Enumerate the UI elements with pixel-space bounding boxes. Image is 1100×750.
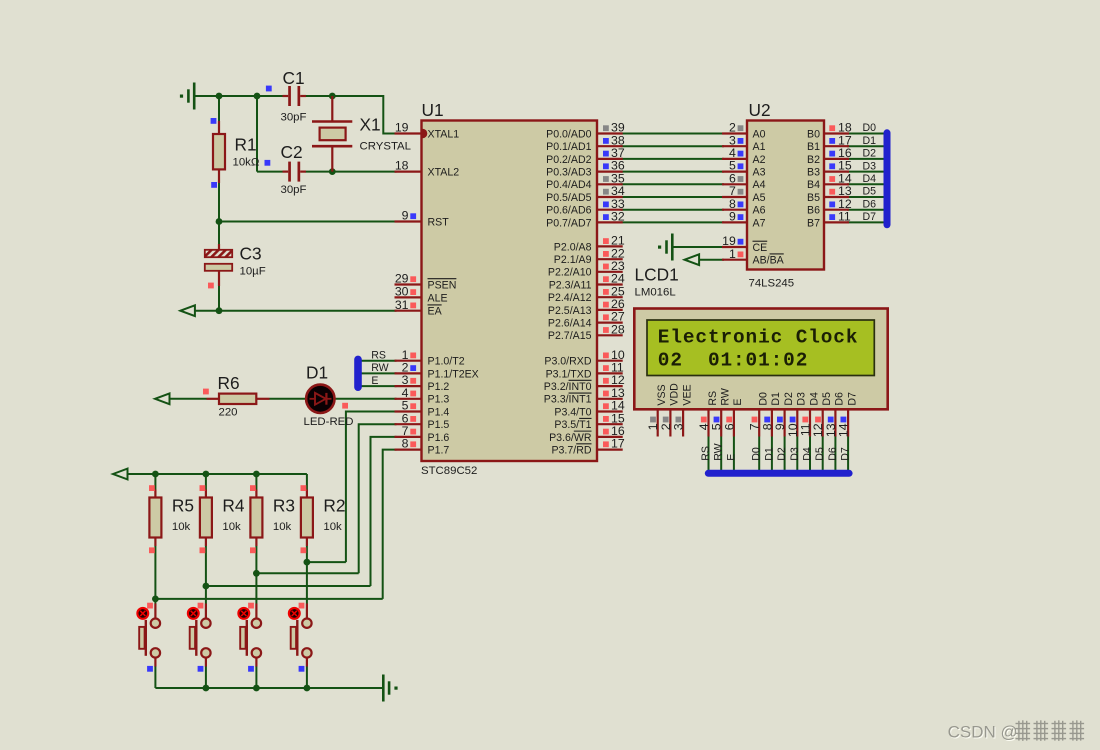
svg-text:D3: D3 [863, 160, 877, 172]
node rail/R3 junction [253, 471, 260, 478]
wire P0.4 U1 to U2 [621, 183, 724, 185]
svg-text:VSS: VSS [656, 384, 668, 405]
wire LCD E to bus [733, 437, 735, 472]
svg-text:D5: D5 [821, 392, 833, 406]
svg-text:U2: U2 [749, 100, 771, 120]
resistor R2 [301, 490, 313, 547]
svg-text:D7: D7 [846, 392, 858, 406]
svg-text:A5: A5 [753, 192, 766, 204]
svg-text:D5: D5 [863, 186, 877, 198]
pin state marker button 2 bottom [198, 666, 204, 672]
wire RST [219, 221, 397, 223]
svg-text:P0.0/AD0: P0.0/AD0 [546, 128, 591, 140]
IC U2 74LS245 body [747, 121, 824, 270]
wire B7 to D bus [847, 221, 885, 223]
wire P0.0 U1 to U2 [621, 133, 724, 135]
svg-text:30pF: 30pF [281, 184, 307, 196]
svg-text:10k: 10k [222, 521, 241, 533]
wire C2 left [257, 171, 283, 173]
svg-text:10k: 10k [172, 521, 191, 533]
svg-text:E: E [725, 454, 737, 461]
svg-text:18: 18 [395, 159, 409, 173]
node R2 tap [304, 559, 311, 566]
svg-text:P2.5/A13: P2.5/A13 [548, 305, 592, 317]
svg-text:R6: R6 [218, 373, 240, 393]
svg-text:P2.0/A8: P2.0/A8 [554, 241, 592, 253]
svg-text:D6: D6 [834, 392, 846, 406]
wire R6 to D1 [270, 398, 307, 400]
svg-text:10k: 10k [323, 521, 342, 533]
pin state marker C1 left [266, 86, 272, 92]
svg-text:P3.5/T1: P3.5/T1 [554, 419, 591, 431]
U2 right pin numbers [838, 121, 852, 224]
svg-text:P0.5/AD5: P0.5/AD5 [546, 192, 591, 204]
capacitor C2 [283, 162, 306, 182]
svg-text:30pF: 30pF [281, 112, 307, 124]
svg-text:D4: D4 [863, 173, 877, 185]
wire P0.6 U1 to U2 [621, 209, 724, 211]
pin state marker button 3 bottom [248, 666, 254, 672]
svg-text:8: 8 [402, 437, 409, 451]
node R3 tap [253, 570, 260, 577]
svg-text:D0: D0 [758, 392, 770, 406]
crystal X1 [312, 96, 352, 172]
LED D1 [306, 385, 334, 413]
pin state marker button 4 top [299, 603, 305, 609]
svg-text:P1.6: P1.6 [428, 432, 450, 444]
pin state marker button 1 bottom [147, 666, 153, 672]
push button 4 [291, 604, 312, 667]
button 2 actuator [188, 608, 199, 619]
ground terminal at resistor rail [113, 469, 128, 480]
wire B0 to D bus [847, 133, 885, 135]
svg-text:29: 29 [395, 272, 409, 286]
bus LCD data (bottom) [705, 470, 853, 477]
svg-text:P1.0/T2: P1.0/T2 [428, 356, 465, 368]
svg-text:D2: D2 [776, 447, 788, 461]
resistor R3 [250, 490, 262, 547]
U1 right pin numbers [611, 121, 625, 451]
svg-text:10k: 10k [273, 521, 292, 533]
svg-text:R5: R5 [172, 496, 194, 516]
wire key row to riser (column R3) [256, 572, 358, 574]
wire riser to U1 pin (column R3) [359, 424, 397, 573]
svg-text:D7: D7 [840, 447, 852, 461]
svg-text:A0: A0 [753, 128, 766, 140]
svg-text:P3.6/WR: P3.6/WR [549, 432, 592, 444]
wire LCD D4 to bus [809, 437, 811, 472]
node C2/X1 junction [329, 168, 336, 175]
svg-text:RS: RS [700, 446, 712, 461]
svg-text:C2: C2 [281, 142, 303, 162]
wire P0.7 U1 to U2 [621, 221, 724, 223]
wire LCD D5 to bus [822, 437, 824, 472]
wire button 2 bottom [255, 666, 257, 688]
ground terminal at R6 [155, 393, 170, 404]
wire LCD D1 to bus [771, 437, 773, 472]
wire R5 bottom to node [154, 546, 156, 599]
node VCC/C2 junction [254, 93, 261, 100]
wire ground to AB/BA [699, 259, 724, 261]
svg-text:X1: X1 [360, 115, 381, 135]
svg-text:32: 32 [611, 210, 625, 224]
wire P0.5 U1 to U2 [621, 196, 724, 198]
node bottom rail junction 2 [253, 685, 260, 692]
svg-text:D2: D2 [783, 392, 795, 406]
svg-text:A3: A3 [753, 167, 766, 179]
pin state marker R2 bottom [301, 547, 307, 553]
svg-text:LCD1: LCD1 [635, 265, 679, 285]
svg-text:RS: RS [707, 391, 719, 406]
svg-text:P0.7/AD7: P0.7/AD7 [546, 217, 591, 229]
svg-text:B0: B0 [807, 128, 820, 140]
U1 left pin stubs [395, 134, 422, 450]
wire X1 top to XTAL1 [332, 96, 396, 134]
svg-text:R4: R4 [222, 496, 244, 516]
wire LCD D0 to bus [758, 437, 760, 472]
svg-text:P3.0/RXD: P3.0/RXD [544, 356, 591, 368]
svg-text:ALE: ALE [428, 292, 448, 304]
svg-text:Electronic Clock: Electronic Clock [658, 327, 859, 349]
svg-text:74LS245: 74LS245 [749, 278, 795, 290]
svg-text:P1.1/T2EX: P1.1/T2EX [428, 368, 479, 380]
svg-text:28: 28 [611, 322, 625, 336]
pin state marker D1 right [342, 403, 348, 409]
svg-text:P3.1/TXD: P3.1/TXD [546, 368, 592, 380]
svg-text:D1: D1 [770, 392, 782, 406]
svg-text:P0.1/AD1: P0.1/AD1 [546, 141, 591, 153]
svg-text:P2.4/A12: P2.4/A12 [548, 292, 592, 304]
pin state marker C2 left [265, 160, 271, 166]
pin state marker button 4 bottom [299, 666, 305, 672]
push button 1 [139, 604, 160, 667]
resistor R5 [149, 490, 161, 547]
LCD screen [647, 320, 874, 376]
svg-text:A4: A4 [753, 179, 766, 191]
svg-text:VEE: VEE [681, 384, 693, 405]
svg-text:P3.2/INT0: P3.2/INT0 [544, 381, 592, 393]
U2 right pin state markers [829, 125, 835, 220]
svg-text:10µF: 10µF [240, 266, 266, 278]
svg-text:P2.7/A15: P2.7/A15 [548, 330, 592, 342]
LCD LCD1 LM016L body [634, 309, 887, 410]
svg-text:RST: RST [428, 216, 450, 228]
svg-text:A6: A6 [753, 205, 766, 217]
pin state marker button 3 top [248, 603, 254, 609]
wire button 3 bottom [205, 666, 207, 688]
wire P0.1 U1 to U2 [621, 145, 724, 147]
pin state marker R5 top [149, 485, 155, 491]
wire R5 top [154, 474, 156, 490]
svg-text:EA: EA [428, 306, 443, 318]
svg-text:D3: D3 [789, 447, 801, 461]
svg-text:D1: D1 [763, 447, 775, 461]
U2 left pin names [753, 128, 785, 266]
push button 3 [240, 604, 261, 667]
node rail/R5 junction [152, 471, 159, 478]
wire ground to R6 [170, 398, 207, 400]
capacitor C3 (electrolytic) [205, 244, 232, 286]
U2 right pin names [807, 128, 820, 229]
pin state marker R6 left [203, 389, 209, 395]
wire B5 to D bus [847, 196, 885, 198]
wire B4 to D bus [847, 183, 885, 185]
wire node to button 1 [306, 562, 308, 603]
wire E bus tap to P1.2 [361, 385, 397, 387]
svg-text:D7: D7 [863, 211, 877, 223]
svg-text:P2.1/A9: P2.1/A9 [554, 254, 592, 266]
wire LCD D6 to bus [834, 437, 836, 472]
wire R4 top [205, 474, 207, 490]
wire R1 bottom to RST [218, 183, 220, 222]
node R4 tap [203, 583, 210, 590]
svg-text:19: 19 [395, 121, 409, 135]
U1 XTAL1 clock mark [423, 129, 428, 139]
pin state marker R2 top [301, 485, 307, 491]
svg-text:P1.3: P1.3 [428, 394, 450, 406]
bus D0-D7 (right) [884, 129, 891, 228]
svg-text:P3.3/INT1: P3.3/INT1 [544, 394, 592, 406]
svg-text:PSEN: PSEN [428, 279, 457, 291]
svg-text:02 01:01:02: 02 01:01:02 [658, 349, 808, 371]
pin state marker C3 bottom [208, 283, 214, 289]
svg-text:D0: D0 [751, 447, 763, 461]
svg-text:P0.6/AD6: P0.6/AD6 [546, 205, 591, 217]
svg-text:B2: B2 [807, 154, 820, 166]
svg-text:D4: D4 [802, 447, 814, 461]
svg-text:D1: D1 [863, 135, 877, 147]
wire B2 to D bus [847, 158, 885, 160]
svg-text:P1.2: P1.2 [428, 381, 450, 393]
svg-text:D6: D6 [863, 198, 877, 210]
wire LCD D3 to bus [796, 437, 798, 472]
pin state marker R4 bottom [200, 547, 206, 553]
svg-text:D0: D0 [863, 122, 877, 134]
U2 left pin numbers [722, 121, 736, 261]
wire button ground rail (bottom) [155, 687, 383, 689]
svg-text:P3.4/T0: P3.4/T0 [554, 406, 591, 418]
svg-text:LM016L: LM016L [635, 287, 676, 299]
button 1 actuator [137, 608, 148, 619]
wire R3 top [255, 474, 257, 490]
svg-text:R3: R3 [273, 496, 295, 516]
wire RW bus tap to P1.1 [361, 372, 397, 374]
svg-text:14: 14 [837, 423, 851, 437]
wire R2 top [306, 474, 308, 490]
wire C3 to ground rail [218, 286, 220, 311]
wire C2 branch vertical [256, 95, 258, 172]
svg-text:9: 9 [729, 210, 736, 224]
svg-text:U1: U1 [422, 100, 444, 120]
U1 right pin names [544, 128, 592, 456]
power symbol bottom (button rail) [383, 675, 397, 702]
svg-text:D4: D4 [808, 392, 820, 406]
svg-text:P1.7: P1.7 [428, 445, 450, 457]
pin state marker R1 top [211, 118, 217, 124]
wire key row to riser (column R4) [206, 585, 371, 587]
svg-text:R1: R1 [235, 135, 257, 155]
wire button 4 bottom [154, 666, 156, 688]
wire key row to riser (column R2) [307, 561, 346, 563]
capacitor C1 [283, 86, 306, 106]
svg-text:P3.7/RD: P3.7/RD [551, 445, 591, 457]
svg-text:P2.6/A14: P2.6/A14 [548, 318, 592, 330]
pin state marker button 1 top [147, 603, 153, 609]
svg-text:A2: A2 [753, 154, 766, 166]
wire EA to ground [195, 310, 397, 312]
svg-text:P0.3/AD3: P0.3/AD3 [546, 167, 591, 179]
svg-text:B4: B4 [807, 179, 820, 191]
svg-text:P2.3/A11: P2.3/A11 [549, 279, 592, 291]
wire LCD D2 to bus [784, 437, 786, 472]
button 3 actuator [238, 608, 249, 619]
svg-text:P1.4: P1.4 [428, 406, 450, 418]
pin state marker R1 bottom [211, 182, 217, 188]
wire R1 top [218, 96, 220, 121]
svg-text:D6: D6 [827, 447, 839, 461]
wire LCD RS to bus [708, 437, 710, 472]
svg-text:31: 31 [395, 298, 409, 312]
node R5 tap [152, 596, 159, 603]
LCD pin stubs [658, 409, 848, 436]
wire riser to U1 pin (column R4) [371, 437, 397, 586]
svg-text:P0.4/AD4: P0.4/AD4 [546, 179, 591, 191]
svg-text:AB/BA: AB/BA [753, 255, 785, 267]
U1 left pin numbers [395, 121, 409, 451]
svg-text:1: 1 [729, 247, 736, 261]
svg-text:STC89C52: STC89C52 [421, 465, 477, 477]
node rail/R4 junction [203, 471, 210, 478]
LCD pin numbers (rotated) [646, 423, 850, 437]
U1 right pin stubs [597, 134, 623, 450]
wire power to CE [672, 246, 724, 248]
wire resistor top rail [128, 473, 307, 475]
button 4 actuator [289, 608, 300, 619]
ground terminal at EA [180, 305, 195, 316]
wire B3 to D bus [847, 171, 885, 173]
wire B6 to D bus [847, 209, 885, 211]
wire key row to riser (column R5) [155, 598, 382, 600]
LCD pin names (rotated) [656, 383, 858, 406]
bus RS/RW/E (near U1) [354, 356, 362, 391]
svg-text:3: 3 [672, 423, 686, 430]
svg-text:VDD: VDD [669, 383, 681, 406]
wire P0.2 U1 to U2 [621, 158, 724, 160]
svg-text:6: 6 [722, 423, 736, 430]
U1 right pin state markers [603, 125, 609, 447]
svg-text:CE: CE [753, 242, 768, 254]
wire R4 bottom to node [205, 546, 207, 586]
power symbol VCC top-left [180, 83, 194, 110]
svg-text:C3: C3 [240, 244, 262, 264]
watermark CSDN @author [948, 720, 1085, 742]
svg-text:LED-RED: LED-RED [304, 416, 354, 428]
svg-text:R2: R2 [323, 496, 345, 516]
svg-text:B3: B3 [807, 167, 820, 179]
svg-text:P0.2/AD2: P0.2/AD2 [546, 154, 591, 166]
wire riser to U1 pin (column R2) [346, 412, 397, 563]
svg-text:30: 30 [395, 285, 409, 299]
svg-text:10kΩ: 10kΩ [233, 157, 260, 169]
U1 left pin names [428, 128, 479, 456]
wire LCD D7 to bus [847, 437, 849, 472]
svg-text:P2.2/A10: P2.2/A10 [548, 267, 592, 279]
svg-text:RW: RW [720, 388, 732, 405]
wire B1 to D bus [847, 145, 885, 147]
wire RST to C3 [218, 222, 220, 245]
node bottom rail junction 1 [203, 685, 210, 692]
wire node to button 2 [255, 573, 257, 603]
resistor R4 [200, 490, 212, 547]
node EA/C3 ground junction [216, 307, 223, 314]
wire RS bus tap to P1.0 [361, 360, 397, 362]
wire riser to U1 pin (column R5) [383, 450, 397, 599]
svg-text:RW: RW [713, 443, 725, 460]
svg-text:B7: B7 [807, 217, 820, 229]
pin state marker R3 top [250, 485, 256, 491]
wire LCD RW to bus [720, 437, 722, 472]
U2 left pin state markers [738, 125, 744, 257]
pin state marker R3 bottom [250, 547, 256, 553]
svg-text:E: E [732, 399, 744, 406]
wire node to button 3 [205, 586, 207, 604]
wire VCC rail (top-left) [194, 95, 282, 97]
wire C1 to X1 top node [306, 95, 333, 97]
power symbol at U2 CE [658, 234, 672, 261]
svg-text:E: E [371, 375, 378, 387]
svg-text:C1: C1 [283, 68, 305, 88]
node VCC/R1 junction [216, 93, 223, 100]
svg-text:9: 9 [402, 209, 409, 223]
net labels D0-D7 at bus [863, 122, 877, 223]
node RST junction [216, 218, 223, 225]
resistor R1 [213, 121, 225, 183]
svg-text:D2: D2 [863, 148, 877, 160]
wire button 1 bottom [306, 666, 308, 688]
svg-text:220: 220 [219, 407, 238, 419]
svg-text:A7: A7 [753, 217, 766, 229]
wire R2 bottom to node [306, 546, 308, 562]
wire P0.3 U1 to U2 [621, 171, 724, 173]
push button 2 [190, 604, 211, 667]
svg-text:17: 17 [611, 437, 625, 451]
pin state marker R5 bottom [149, 547, 155, 553]
U1 left pin state markers [410, 213, 416, 447]
pin state marker button 2 top [198, 603, 204, 609]
wire node to button 4 [154, 599, 156, 604]
U2 left pin stubs [722, 134, 747, 260]
pin state marker R4 top [200, 485, 206, 491]
svg-text:D5: D5 [814, 447, 826, 461]
IC U1 STC89C52 body [422, 121, 598, 462]
svg-text:B1: B1 [807, 141, 820, 153]
svg-text:RS: RS [371, 349, 386, 361]
node C1/X1 junction [329, 93, 336, 100]
svg-text:B5: B5 [807, 192, 820, 204]
LCD pin state markers [650, 417, 846, 423]
resistor R6 [207, 394, 270, 404]
svg-text:XTAL2: XTAL2 [428, 167, 460, 179]
svg-text:CSDN @: CSDN @ [948, 723, 1018, 742]
svg-text:11: 11 [838, 210, 851, 224]
svg-text:B6: B6 [807, 205, 820, 217]
svg-text:XTAL1: XTAL1 [428, 128, 460, 140]
wire R3 bottom to node [255, 546, 257, 573]
svg-text:D3: D3 [796, 392, 808, 406]
svg-text:RW: RW [371, 362, 388, 374]
svg-text:D1: D1 [306, 363, 328, 383]
svg-text:P1.5: P1.5 [428, 419, 450, 431]
